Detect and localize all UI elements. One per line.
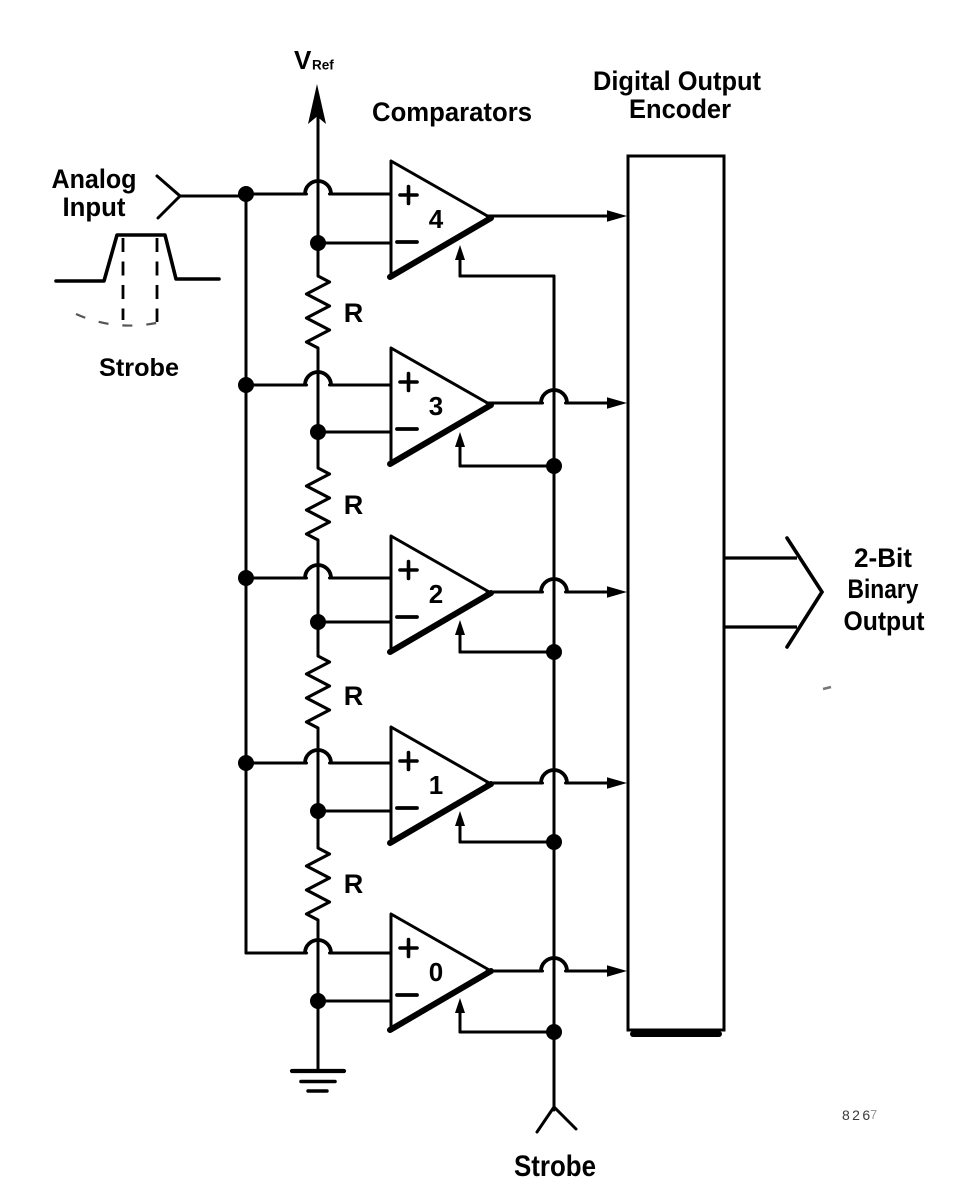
- wire analog input to node: [180, 195, 246, 198]
- svg-text:V: V: [294, 45, 312, 75]
- node strobe bus junction (0): [546, 1024, 562, 1040]
- wire +input comparator U0: [246, 952, 307, 955]
- strobe waveform dashed line right: [156, 238, 159, 322]
- strobe arrow into U3: [455, 432, 465, 447]
- pin + label U1: [400, 753, 417, 770]
- svg-text:R: R: [344, 681, 364, 711]
- strobe arrow into U1: [455, 811, 465, 826]
- pin + label U3: [400, 374, 417, 391]
- wire +input comparator U1: [246, 762, 307, 765]
- node analog bus junction (comp 4): [238, 186, 254, 202]
- encoder input arrowhead (U2): [607, 586, 627, 598]
- Vref supply arrow: [308, 84, 326, 124]
- wire output U2 to encoder: [487, 591, 543, 594]
- ground: [292, 1071, 344, 1091]
- wire -input comparator U1: [318, 810, 391, 813]
- svg-text:Ref: Ref: [312, 58, 334, 73]
- wire strobe bus vertical: [553, 276, 556, 1110]
- node Vref tap (comp 3): [310, 424, 326, 440]
- svg-text:Analog: Analog: [52, 164, 137, 194]
- node Vref tap (comp 0): [310, 993, 326, 1009]
- strobe waveform dashed line left: [122, 238, 125, 320]
- svg-text:R: R: [344, 298, 364, 328]
- node Vref tap (comp 2): [310, 614, 326, 630]
- strobe waveform dashed arc: [76, 314, 161, 326]
- pin - label U1: [397, 806, 417, 810]
- wire output U4 to encoder: [487, 215, 610, 218]
- svg-text:Encoder: Encoder: [629, 94, 731, 124]
- node Vref tap (comp 4): [310, 235, 326, 251]
- wire -input comparator U0: [318, 1000, 391, 1003]
- node Vref tap (comp 1): [310, 803, 326, 819]
- wire output U0 to encoder: [487, 970, 543, 973]
- comparator U2: [390, 536, 491, 652]
- label Analog Input: [52, 164, 137, 222]
- node strobe bus junction (2): [546, 644, 562, 660]
- strobe pulse waveform: [56, 235, 219, 281]
- pin - label U0: [397, 993, 417, 997]
- svg-text:2-Bit: 2-Bit: [854, 543, 912, 573]
- svg-text:0: 0: [429, 957, 443, 987]
- label 2-Bit Binary Output: [844, 543, 925, 636]
- strobe arrow into U2: [455, 620, 465, 635]
- pin + label U4: [400, 187, 417, 204]
- pin + label U0: [400, 940, 417, 957]
- wire -input comparator U2: [318, 621, 391, 624]
- wire Vref ladder vertical: [317, 112, 320, 276]
- resistor R4: [307, 848, 330, 920]
- encoder input arrowhead (U4): [607, 210, 627, 222]
- wire +input comparator U2: [246, 577, 307, 580]
- svg-text:Strobe: Strobe: [514, 1150, 596, 1183]
- comparator U1: [390, 727, 491, 843]
- encoder block U6: [628, 156, 724, 1030]
- strobe arrow into U0: [455, 998, 465, 1013]
- net label V_Ref: [294, 45, 334, 75]
- wire +input comparator U4: [246, 193, 307, 196]
- node analog bus junction (comp 3): [238, 377, 254, 393]
- pin + label U2: [400, 562, 417, 579]
- pin - label U4: [397, 240, 417, 244]
- encoder bottom shadow edge: [633, 1031, 719, 1037]
- wire output U1 to encoder: [487, 782, 543, 785]
- svg-text:4: 4: [429, 204, 444, 234]
- wire output U3 to encoder: [487, 402, 543, 405]
- comparator U0: [390, 914, 491, 1030]
- svg-text:Binary: Binary: [848, 574, 919, 604]
- wire -input comparator U3: [318, 431, 391, 434]
- svg-text:Comparators: Comparators: [372, 97, 532, 127]
- resistor R1: [307, 276, 330, 348]
- svg-text:Output: Output: [844, 606, 925, 636]
- svg-text:Input: Input: [63, 192, 126, 222]
- svg-text:Strobe: Strobe: [99, 354, 179, 382]
- svg-text:1: 1: [429, 770, 443, 800]
- 2-bit output arrow: [724, 538, 822, 647]
- node analog bus junction (comp 1): [238, 755, 254, 771]
- wire +input comparator U3: [246, 384, 307, 387]
- figure number 8267: [842, 1107, 877, 1123]
- wire analog input bus vertical: [245, 196, 248, 953]
- stray mark: [823, 687, 831, 689]
- pin - label U3: [397, 427, 417, 431]
- encoder input arrowhead (U3): [607, 397, 627, 409]
- node strobe bus junction (3): [546, 458, 562, 474]
- strobe input terminal: [537, 1107, 576, 1132]
- svg-text:Digital Output: Digital Output: [593, 66, 761, 96]
- resistor R2: [307, 468, 330, 540]
- encoder input arrowhead (U0): [607, 965, 627, 977]
- svg-text:R: R: [344, 869, 364, 899]
- wire -input comparator U4: [318, 242, 391, 245]
- resistor R3: [307, 656, 330, 728]
- comparator U4: [390, 161, 491, 277]
- svg-text:R: R: [344, 490, 364, 520]
- encoder input arrowhead (U1): [607, 777, 627, 789]
- strobe arrow into U4: [455, 245, 465, 260]
- node analog bus junction (comp 2): [238, 570, 254, 586]
- svg-text:7: 7: [870, 1107, 877, 1122]
- comparator U3: [390, 348, 491, 464]
- node strobe bus junction (1): [546, 834, 562, 850]
- svg-text:2: 2: [429, 579, 443, 609]
- svg-text:826: 826: [842, 1107, 873, 1123]
- pin - label U2: [397, 615, 417, 619]
- svg-text:3: 3: [429, 391, 443, 421]
- analog input terminal: [157, 176, 180, 218]
